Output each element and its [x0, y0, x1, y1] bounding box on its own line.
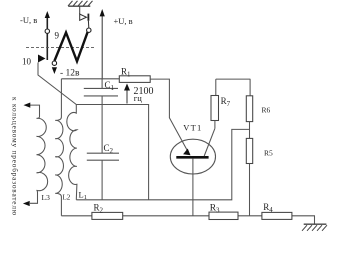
svg-text:L2: L2	[63, 194, 71, 202]
svg-text:VT1: VT1	[183, 123, 202, 133]
svg-text:гц: гц	[134, 93, 142, 103]
svg-text:-U, в: -U, в	[20, 15, 37, 25]
svg-text:L3: L3	[42, 193, 51, 202]
svg-text:+U, в: +U, в	[114, 16, 133, 26]
svg-text:R5: R5	[264, 149, 273, 158]
svg-text:- 12в: - 12в	[60, 69, 80, 79]
svg-text:R6: R6	[262, 106, 271, 115]
svg-text:9: 9	[55, 31, 60, 41]
svg-text:к кольцевому преобразователю: к кольцевому преобразователю	[11, 97, 19, 216]
svg-text:10: 10	[22, 57, 32, 67]
